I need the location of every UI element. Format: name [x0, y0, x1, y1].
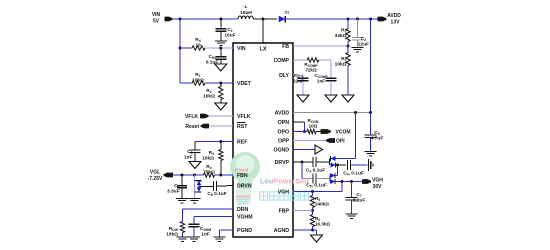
svg-text:5V: 5V [153, 19, 160, 25]
diode D5 [331, 163, 336, 168]
ground PGND [214, 237, 226, 241]
svg-text:OGND: OGND [273, 148, 289, 154]
svg-text:1nF: 1nF [184, 155, 193, 161]
capacitor C7 1nF [190, 142, 201, 162]
net label VCOM [336, 130, 351, 136]
wire LX pin [262, 19, 264, 43]
svg-text:4.7uF: 4.7uF [371, 136, 384, 142]
wire D1 to AVDD rail [283, 18, 345, 20]
capacitor C0 0.1uF [215, 48, 226, 64]
wire DLY row [293, 75, 303, 78]
ground R6 [215, 103, 227, 110]
svg-text:AVDD: AVDD [387, 13, 401, 19]
wire VGHM [194, 217, 233, 225]
node junction AVDD branch [369, 18, 372, 21]
net label OPI [336, 139, 345, 145]
svg-text:OPP: OPP [278, 139, 289, 145]
node junction VGH feedback [341, 180, 344, 183]
resistor R1 34k [346, 19, 350, 46]
svg-text:VFLK: VFLK [237, 114, 251, 120]
label R2 [335, 56, 347, 68]
wire VGH pin row [293, 182, 342, 192]
wire pump2 left column [329, 176, 331, 182]
svg-text:D1: D1 [285, 11, 289, 15]
wire pump mid node [199, 185, 214, 187]
ground C10 [346, 214, 358, 218]
wire pump bottom stub [194, 191, 196, 193]
svg-text:REF: REF [237, 140, 247, 146]
svg-text:DLY: DLY [279, 73, 289, 79]
resistor R9 Rdis 10k [180, 222, 184, 238]
capacitor C4 0.1uF [348, 160, 368, 170]
svg-text:VGL: VGL [150, 170, 160, 176]
svg-text:C3 0.1uF: C3 0.1uF [306, 168, 325, 174]
svg-text:30V: 30V [373, 184, 383, 190]
label Rcomp [304, 62, 318, 73]
capacitor Ccomp 1nF [326, 78, 337, 95]
node junction pump feed [354, 111, 357, 114]
node junction R7 bottom [219, 174, 222, 177]
label R10 [315, 196, 329, 207]
node junction R10 top [311, 190, 314, 193]
resistor R5 10k [192, 81, 205, 85]
resistor R6 10k [219, 83, 223, 103]
label R5 [192, 72, 204, 84]
svg-text:AVDD: AVDD [275, 111, 290, 117]
resistor Rcom 10 [307, 129, 316, 133]
svg-text:LX: LX [259, 47, 266, 53]
U1 right pin stubs [293, 46, 299, 230]
capacitor C5 0.1uF [313, 174, 330, 184]
svg-text:34kΩ: 34kΩ [335, 33, 347, 39]
net label Reset [185, 124, 199, 130]
svg-text:DRVN: DRVN [237, 184, 252, 190]
wire pump stage link [337, 165, 339, 176]
wire OPP [293, 140, 326, 142]
svg-text:C8 0.1uF: C8 0.1uF [207, 191, 226, 197]
ground OGND right-pointing [315, 145, 323, 154]
svg-text:-7.25V: -7.25V [148, 176, 163, 182]
node junction D5 out [336, 164, 339, 167]
node junction R1 top [347, 18, 350, 21]
label Ccomp [314, 73, 328, 84]
label C4 [343, 171, 364, 177]
capacitor Cdly 22nF [298, 78, 309, 95]
node junction VGL pump [193, 174, 196, 177]
wire PGND [220, 230, 234, 237]
node junction VIN row [179, 47, 182, 50]
wire AVDD vertical [370, 19, 372, 113]
output arrow Reset [201, 124, 210, 129]
node junction C1 top [220, 18, 223, 21]
wire FB row [293, 45, 348, 47]
node junction FB [347, 45, 350, 48]
input arrow VFLK [200, 114, 209, 119]
resistor R7 10k [219, 142, 223, 176]
resistor R8 70k [204, 173, 215, 177]
wire REF row [195, 141, 233, 143]
diode D7 [330, 179, 335, 184]
resistor R11 16.3k [310, 215, 314, 231]
label R4 [195, 37, 201, 49]
svg-text:22nF: 22nF [293, 79, 304, 84]
wire L1 to LX node [254, 18, 263, 20]
svg-text:FB: FB [282, 44, 289, 50]
input arrow OPI [326, 138, 335, 143]
node junction R7 top [219, 140, 222, 143]
wire VIN arrow to rail [173, 18, 181, 20]
label C6 [167, 183, 180, 195]
inductor L1 10uH [238, 16, 253, 19]
label R6 [203, 88, 215, 100]
ground Ccomp [325, 95, 337, 102]
label R7 [202, 150, 214, 162]
capacitor C6 3.3uF [177, 175, 187, 199]
label C9 [371, 130, 384, 142]
svg-text:VFLK: VFLK [185, 114, 198, 120]
node junction DRVP [301, 161, 304, 164]
svg-text:VGH: VGH [278, 190, 289, 196]
wire OPN [293, 122, 305, 132]
capacitor C10 2.2uF [346, 182, 358, 215]
node junction OPO [303, 130, 306, 133]
net label VFLK [185, 114, 198, 120]
wire left rail vertical [179, 19, 181, 83]
net label AVDD 13V [387, 13, 401, 26]
wire AVDD pin row [293, 112, 371, 114]
diode D1 [279, 16, 286, 23]
ground AGND [311, 235, 323, 242]
node junction FBP [311, 209, 314, 212]
wire LX node to D1 [263, 18, 277, 20]
wire Reset [209, 125, 233, 127]
wire pump top stub [194, 180, 196, 182]
node junction C0 [219, 47, 222, 50]
svg-text:DRVP: DRVP [275, 160, 290, 166]
diode D2 [197, 181, 202, 186]
wire OPO [293, 131, 321, 133]
net label VGL -7.25V [148, 170, 163, 183]
output arrow VGH [362, 179, 371, 184]
label C0 [206, 54, 219, 66]
svg-text:LouPowerSeu: LouPowerSeu [260, 177, 309, 186]
label R1 [335, 28, 347, 40]
svg-text:AGND: AGND [274, 228, 290, 234]
ground C6 [176, 199, 188, 203]
ground Rdis [177, 237, 189, 241]
op-amp U1 TPS65150 body [233, 43, 293, 237]
wire C5 branch [302, 162, 313, 179]
net label VGH 30V [372, 178, 383, 191]
svg-text:2.2uF: 2.2uF [353, 198, 366, 204]
svg-text:VIN: VIN [152, 12, 161, 18]
svg-text:10kΩ: 10kΩ [192, 78, 204, 84]
node junction VIN rail [179, 18, 182, 21]
resistor R10 240k [310, 192, 314, 215]
svg-text:OPN: OPN [278, 120, 289, 126]
svg-text:10kΩ: 10kΩ [335, 62, 347, 68]
label Cghm [200, 226, 212, 238]
svg-text:FBN: FBN [237, 173, 248, 179]
label C10 [353, 192, 366, 204]
svg-text:DRN: DRN [237, 207, 248, 213]
svg-text:22uF: 22uF [358, 42, 369, 48]
svg-text:70kΩ: 70kΩ [203, 170, 215, 176]
label Rcom [307, 118, 318, 129]
svg-text:VGH: VGH [372, 178, 383, 184]
node junction LX [262, 18, 265, 21]
label C1 [224, 27, 235, 39]
wire FBP row [293, 210, 313, 212]
U1 right pin labels [273, 44, 289, 234]
ground C2 [352, 48, 364, 52]
svg-text:C4, 0.1uF: C4, 0.1uF [343, 171, 364, 177]
svg-text:VDET: VDET [237, 81, 252, 87]
wire D6 up [335, 175, 338, 177]
svg-text:0.1uF: 0.1uF [206, 60, 219, 66]
svg-text:C5, 0.1uF: C5, 0.1uF [306, 183, 327, 189]
node junction C10 [350, 180, 353, 183]
svg-text:1nF: 1nF [317, 79, 325, 84]
svg-text:13V: 13V [391, 20, 401, 26]
svg-text:10kΩ: 10kΩ [203, 94, 215, 100]
svg-text:16.3kΩ: 16.3kΩ [315, 222, 330, 227]
svg-text:10: 10 [195, 43, 201, 49]
wire VIN row [180, 47, 233, 49]
wire COMP row [293, 60, 331, 78]
wire D4 to AVDD [336, 113, 356, 159]
svg-text:PGND: PGND [237, 228, 252, 234]
svg-text:RST: RST [237, 124, 248, 130]
label D1 [285, 11, 289, 15]
node junction AGND [311, 229, 314, 232]
wire AVDD rail right [345, 18, 378, 20]
capacitor C2 22uF [352, 19, 363, 48]
capacitor C1 10uF [216, 19, 227, 41]
wire VFLK [209, 115, 234, 117]
label L1 [240, 4, 252, 16]
node junction C6 [181, 174, 184, 177]
svg-text:VCOM: VCOM [336, 130, 351, 136]
ground Cdly [297, 95, 309, 102]
capacitor C3 0.1uF [313, 157, 330, 167]
label C5 [306, 183, 327, 189]
U1 left pin labels [237, 46, 253, 234]
svg-text:10kΩ: 10kΩ [202, 156, 214, 162]
svg-text:10uF: 10uF [224, 33, 235, 39]
label C8 [207, 191, 226, 197]
ground VGL pump [188, 199, 200, 203]
label Cdly [293, 73, 304, 84]
wire top rail left [180, 18, 238, 20]
svg-text:Reset: Reset [185, 124, 199, 130]
svg-text:OPO: OPO [277, 130, 289, 136]
svg-text:10kΩ: 10kΩ [166, 232, 178, 238]
svg-text:COMP: COMP [273, 58, 289, 64]
svg-text:10Ω: 10Ω [309, 124, 318, 129]
svg-text:1nF: 1nF [201, 232, 210, 238]
output arrow VGL [164, 173, 174, 178]
node junction C2 top [356, 18, 359, 21]
ground C0 [215, 64, 227, 71]
net label VIN 5V [152, 12, 161, 25]
label R8 [203, 164, 215, 176]
svg-text:VGHM: VGHM [237, 215, 253, 221]
ground C4 right-pointing [369, 159, 373, 171]
svg-text:L: L [245, 4, 248, 10]
svg-text:10uH: 10uH [240, 10, 252, 16]
wire AGND row [293, 230, 317, 235]
ground R2 [342, 95, 354, 102]
diode D6 [330, 173, 335, 178]
wire D5 to C4 [336, 164, 347, 166]
pin label LX [259, 47, 266, 53]
capacitor C8 0.1uF [214, 181, 234, 191]
ground Cghm [188, 237, 200, 241]
diode D3 [197, 187, 202, 192]
wire OGND [293, 149, 315, 151]
wire DRVP row [293, 161, 313, 163]
input arrow VIN [165, 17, 173, 22]
label C3 [306, 168, 325, 174]
U1 left pin stubs [227, 48, 233, 230]
wire FBN row [173, 174, 233, 176]
ground C1 [215, 41, 227, 45]
wire DRN [183, 209, 234, 222]
node junction R6 [219, 82, 222, 85]
resistor R4 10 [192, 46, 205, 50]
output arrow VCOM [321, 129, 332, 134]
wire VGH out row [335, 181, 362, 183]
ground C7 [189, 162, 201, 169]
svg-text:72kΩ: 72kΩ [305, 68, 317, 73]
ground C9 [365, 152, 377, 156]
node junction C9 [369, 111, 372, 114]
wire pump column [193, 175, 195, 199]
svg-text:OPI: OPI [336, 139, 345, 145]
capacitor Cghm 1nF [189, 224, 200, 237]
label R11 [315, 216, 330, 227]
label Rdis [166, 226, 179, 238]
resistor R2 10k [346, 46, 350, 95]
label C7 [184, 149, 193, 161]
capacitor C9 4.7uF [365, 113, 377, 152]
label C2 [358, 36, 369, 48]
diode D4 [331, 156, 336, 161]
output arrow AVDD [378, 17, 387, 22]
svg-text:FBP: FBP [279, 209, 290, 215]
svg-text:240kΩ: 240kΩ [315, 202, 329, 207]
svg-text:3.3uF: 3.3uF [167, 189, 180, 195]
svg-text:VIN: VIN [237, 46, 246, 52]
watermark logo and text [230, 152, 309, 204]
wire VDET row [180, 82, 233, 84]
resistor Rcomp 72k [307, 58, 319, 62]
wire pump1 left column [329, 159, 331, 166]
